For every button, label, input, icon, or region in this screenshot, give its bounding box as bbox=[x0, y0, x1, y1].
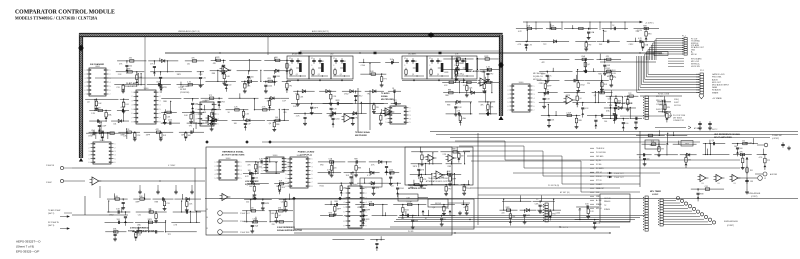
svg-text:4: 4 bbox=[410, 118, 411, 120]
svg-text:100: 100 bbox=[255, 177, 258, 179]
svg-text:C204: C204 bbox=[247, 78, 251, 80]
svg-text:ATTENUATOR MOD OUTPUT: ATTENUATOR MOD OUTPUT bbox=[426, 180, 451, 183]
svg-text:R91: R91 bbox=[750, 170, 753, 172]
svg-text:C7: C7 bbox=[429, 58, 431, 60]
svg-text:1: 1 bbox=[366, 188, 367, 190]
svg-text:SHIFT: SHIFT bbox=[674, 102, 680, 104]
svg-text:R88: R88 bbox=[448, 89, 451, 91]
svg-text:3: 3 bbox=[218, 114, 219, 116]
svg-text:CR12: CR12 bbox=[629, 44, 634, 46]
svg-text:SPARE: SPARE bbox=[596, 203, 602, 206]
svg-text:SIGNAL: SIGNAL bbox=[381, 95, 389, 98]
svg-text:5: 5 bbox=[132, 109, 133, 111]
svg-text:TP2: TP2 bbox=[393, 100, 396, 102]
svg-text:TP2: TP2 bbox=[189, 125, 192, 127]
svg-text:3: 3 bbox=[89, 151, 90, 153]
svg-text:+: + bbox=[345, 116, 346, 118]
svg-text:+: + bbox=[733, 176, 734, 178]
svg-text:5: 5 bbox=[115, 158, 116, 160]
svg-text:2 MHZ IN: 2 MHZ IN bbox=[240, 221, 248, 223]
svg-text:R101: R101 bbox=[320, 186, 324, 188]
svg-text:R88: R88 bbox=[276, 124, 279, 126]
svg-text:VR3: VR3 bbox=[375, 187, 379, 189]
svg-text:C88: C88 bbox=[750, 181, 753, 183]
svg-text:2: 2 bbox=[160, 96, 161, 98]
svg-text:3RD AMPL: 3RD AMPL bbox=[408, 53, 416, 56]
svg-text:5: 5 bbox=[312, 174, 313, 176]
svg-text:7: 7 bbox=[366, 216, 367, 218]
svg-text:Q1: Q1 bbox=[318, 74, 320, 76]
svg-text:VR3: VR3 bbox=[221, 102, 225, 104]
svg-text:100: 100 bbox=[740, 148, 743, 150]
svg-text:RX MUTE: RX MUTE bbox=[596, 168, 604, 170]
svg-text:Q1: Q1 bbox=[412, 74, 414, 76]
svg-text:100: 100 bbox=[512, 216, 515, 218]
svg-text:U000: U000 bbox=[144, 88, 149, 90]
svg-text:AT SET (B): AT SET (B) bbox=[560, 191, 570, 194]
svg-text:6: 6 bbox=[85, 90, 86, 92]
svg-text:DET AUD: DET AUD bbox=[596, 155, 604, 158]
svg-text:J4: J4 bbox=[206, 217, 208, 219]
svg-text:TP2: TP2 bbox=[168, 234, 171, 236]
svg-text:R101: R101 bbox=[203, 101, 207, 103]
svg-text:100: 100 bbox=[578, 209, 581, 211]
svg-text:TP2: TP2 bbox=[588, 44, 591, 46]
svg-text:+: + bbox=[429, 156, 430, 158]
svg-text:R88: R88 bbox=[139, 196, 142, 198]
svg-text:VR3: VR3 bbox=[357, 207, 361, 209]
svg-text:100: 100 bbox=[625, 123, 628, 125]
svg-text:A+ SW: A+ SW bbox=[596, 199, 602, 202]
svg-text:1: 1 bbox=[286, 159, 287, 161]
svg-text:100: 100 bbox=[228, 85, 231, 87]
svg-text:DATA OUT: DATA OUT bbox=[596, 187, 604, 190]
svg-text:R88: R88 bbox=[358, 167, 361, 169]
svg-text:220: 220 bbox=[246, 202, 249, 204]
svg-text:POWER SET: POWER SET bbox=[772, 135, 782, 137]
svg-text:5 MHZ: 5 MHZ bbox=[46, 182, 53, 184]
svg-text:VR3: VR3 bbox=[267, 78, 271, 80]
svg-text:CR12: CR12 bbox=[463, 187, 468, 189]
svg-text:6: 6 bbox=[508, 106, 509, 108]
svg-text:2: 2 bbox=[366, 193, 367, 195]
svg-text:2: 2 bbox=[110, 74, 111, 76]
svg-text:3: 3 bbox=[115, 151, 116, 153]
svg-text:4: 4 bbox=[215, 174, 216, 176]
svg-text:100: 100 bbox=[604, 31, 607, 33]
svg-text:6: 6 bbox=[160, 113, 161, 115]
svg-text:SQUELCH: SQUELCH bbox=[607, 73, 616, 75]
svg-text:(2X MODE): (2X MODE) bbox=[180, 92, 190, 94]
svg-text:6: 6 bbox=[286, 178, 287, 180]
svg-text:LOGIC: LOGIC bbox=[652, 194, 659, 196]
svg-text:1: 1 bbox=[89, 144, 90, 146]
svg-text:U000: U000 bbox=[353, 184, 358, 186]
svg-text:100: 100 bbox=[626, 99, 629, 101]
svg-text:7: 7 bbox=[534, 110, 535, 112]
svg-text:P2 MIC CONN: P2 MIC CONN bbox=[658, 94, 670, 96]
svg-text:VR3: VR3 bbox=[648, 33, 652, 35]
svg-text:U000: U000 bbox=[226, 158, 231, 160]
svg-text:U9: U9 bbox=[702, 183, 704, 185]
svg-text:3: 3 bbox=[110, 78, 111, 80]
svg-text:SPARE: SPARE bbox=[712, 91, 719, 94]
svg-text:SPLIT AMPLIFIER: SPLIT AMPLIFIER bbox=[714, 136, 732, 139]
svg-text:FLWS-48934-B: FLWS-48934-B bbox=[748, 193, 761, 195]
svg-text:+: + bbox=[717, 176, 718, 178]
svg-text:TX AUD HI: TX AUD HI bbox=[596, 147, 605, 150]
svg-text:FLWS-48934-B: FLWS-48934-B bbox=[724, 221, 738, 223]
svg-text:1: 1 bbox=[132, 92, 133, 94]
svg-text:SIGNAL BUFFER/SPLITTER: SIGNAL BUFFER/SPLITTER bbox=[277, 229, 303, 232]
svg-text:TP2: TP2 bbox=[490, 74, 493, 76]
svg-text:SPK LO: SPK LO bbox=[596, 172, 603, 174]
svg-text:C31: C31 bbox=[113, 123, 116, 125]
svg-text:220: 220 bbox=[272, 224, 275, 226]
svg-text:R88: R88 bbox=[127, 69, 130, 71]
svg-text:Q1: Q1 bbox=[462, 74, 464, 76]
svg-text:TP2: TP2 bbox=[545, 89, 548, 91]
svg-text:R88: R88 bbox=[598, 74, 601, 76]
svg-text:220: 220 bbox=[501, 213, 504, 215]
svg-text:U9: U9 bbox=[734, 183, 736, 185]
svg-text:1: 1 bbox=[288, 158, 289, 160]
svg-text:R2: R2 bbox=[440, 61, 442, 63]
svg-text:+: + bbox=[701, 176, 702, 178]
svg-text:5: 5 bbox=[286, 174, 287, 176]
svg-text:TX AUDIO SIGNAL: TX AUDIO SIGNAL bbox=[355, 131, 370, 134]
svg-text:5: 5 bbox=[160, 109, 161, 111]
svg-text:UNIFIED AUDIO (SHT 2,3): UNIFIED AUDIO (SHT 2,3) bbox=[178, 30, 200, 33]
svg-text:SHT 2: SHT 2 bbox=[712, 129, 717, 131]
svg-text:NETWORK OPTIONS: NETWORK OPTIONS bbox=[408, 188, 427, 190]
svg-text:R88: R88 bbox=[415, 220, 418, 222]
svg-text:1: 1 bbox=[160, 92, 161, 94]
svg-text:2 MHZ REFERENCE: 2 MHZ REFERENCE bbox=[277, 227, 296, 229]
svg-text:+: + bbox=[209, 118, 210, 120]
svg-text:4: 4 bbox=[160, 105, 161, 107]
svg-text:220: 220 bbox=[122, 102, 125, 104]
svg-text:J3: J3 bbox=[206, 209, 208, 211]
svg-text:3: 3 bbox=[215, 170, 216, 172]
svg-text:2: 2 bbox=[534, 90, 535, 92]
svg-text:5: 5 bbox=[366, 207, 367, 209]
svg-text:SQUELCH: SQUELCH bbox=[533, 76, 543, 78]
svg-text:1: 1 bbox=[85, 70, 86, 72]
svg-text:HOOK SW: HOOK SW bbox=[691, 66, 700, 68]
svg-text:8: 8 bbox=[366, 221, 367, 223]
svg-text:R88: R88 bbox=[578, 120, 581, 122]
svg-text:P3: P3 bbox=[536, 199, 538, 201]
svg-text:FILTER: FILTER bbox=[180, 89, 187, 91]
svg-text:2: 2 bbox=[89, 147, 90, 149]
svg-text:R88: R88 bbox=[212, 73, 215, 75]
svg-text:RTN GUARD: RTN GUARD bbox=[691, 57, 702, 60]
svg-text:R101: R101 bbox=[405, 209, 409, 211]
svg-text:CR12: CR12 bbox=[109, 214, 114, 216]
svg-text:8: 8 bbox=[286, 186, 287, 188]
svg-text:S/N CHANGER: S/N CHANGER bbox=[90, 63, 105, 66]
svg-text:SPARE: SPARE bbox=[604, 208, 611, 211]
svg-text:RX AUDIO: RX AUDIO bbox=[712, 89, 722, 92]
svg-text:GAIN: GAIN bbox=[650, 144, 655, 147]
svg-text:U000: U000 bbox=[297, 155, 302, 157]
svg-text:3: 3 bbox=[386, 115, 387, 117]
svg-text:7: 7 bbox=[508, 110, 509, 112]
svg-text:R2: R2 bbox=[344, 61, 346, 63]
svg-text:8: 8 bbox=[312, 186, 313, 188]
svg-text:VOL HI: VOL HI bbox=[596, 176, 602, 178]
svg-text:TX AUD 2 MHZ: TX AUD 2 MHZ bbox=[48, 209, 61, 212]
svg-text:R88: R88 bbox=[447, 104, 450, 106]
svg-text:TP2: TP2 bbox=[448, 188, 451, 190]
svg-text:PL DECODE: PL DECODE bbox=[596, 152, 607, 154]
svg-text:C204: C204 bbox=[556, 213, 560, 215]
svg-text:.1: .1 bbox=[289, 65, 290, 67]
svg-text:VR3: VR3 bbox=[320, 164, 324, 166]
svg-text:C204: C204 bbox=[335, 118, 339, 120]
svg-text:R2: R2 bbox=[415, 61, 417, 63]
svg-text:5: 5 bbox=[262, 170, 263, 172]
svg-text:R88: R88 bbox=[334, 201, 337, 203]
svg-text:5: 5 bbox=[218, 123, 219, 125]
svg-text:9: 9 bbox=[366, 225, 367, 227]
svg-text:+: + bbox=[481, 80, 482, 82]
svg-text:100: 100 bbox=[604, 121, 607, 123]
svg-text:C204: C204 bbox=[168, 120, 172, 122]
svg-text:COMPARATOR CONTROL MODULE: COMPARATOR CONTROL MODULE bbox=[15, 10, 115, 16]
svg-text:VR3: VR3 bbox=[281, 187, 285, 189]
svg-text:R88: R88 bbox=[643, 25, 646, 27]
svg-text:2: 2 bbox=[115, 147, 116, 149]
svg-text:1: 1 bbox=[312, 159, 313, 161]
svg-text:5: 5 bbox=[89, 158, 90, 160]
svg-text:MPL TIMER: MPL TIMER bbox=[650, 191, 662, 193]
svg-text:J5: J5 bbox=[206, 228, 208, 230]
svg-text:MODELS TTN4093G / CLN7361B / C: MODELS TTN4093G / CLN7361B / CLN7728A bbox=[15, 16, 97, 21]
svg-text:TP2: TP2 bbox=[543, 44, 546, 46]
svg-text:(CONT): (CONT) bbox=[727, 225, 734, 227]
svg-text:4: 4 bbox=[534, 98, 535, 100]
svg-text:Q4: Q4 bbox=[712, 140, 714, 142]
svg-text:Q1: Q1 bbox=[296, 74, 298, 76]
svg-text:C31: C31 bbox=[166, 203, 169, 205]
svg-text:9: 9 bbox=[344, 225, 345, 227]
svg-text:+5V SPARE: +5V SPARE bbox=[712, 97, 723, 100]
svg-text:2 MHZ OUT: 2 MHZ OUT bbox=[614, 177, 625, 179]
svg-text:FEEDBACK CONTROL: FEEDBACK CONTROL bbox=[408, 184, 428, 187]
svg-text:7: 7 bbox=[110, 94, 111, 96]
svg-text:TP2: TP2 bbox=[97, 107, 100, 109]
svg-text:TO SHT 4: TO SHT 4 bbox=[560, 227, 568, 229]
svg-text:LOOP (PLL): LOOP (PLL) bbox=[300, 155, 312, 157]
svg-text:Q4: Q4 bbox=[87, 102, 89, 104]
svg-text:5: 5 bbox=[85, 86, 86, 88]
svg-text:Q4: Q4 bbox=[432, 207, 434, 209]
svg-text:2: 2 bbox=[215, 166, 216, 168]
svg-text:KEYED A+: KEYED A+ bbox=[691, 63, 700, 66]
svg-text:TP2: TP2 bbox=[383, 79, 386, 81]
svg-text:KEYING: KEYING bbox=[674, 105, 681, 107]
svg-text:1: 1 bbox=[215, 162, 216, 164]
svg-text:5: 5 bbox=[508, 102, 509, 104]
svg-text:1: 1 bbox=[534, 86, 535, 88]
svg-text:C31: C31 bbox=[203, 78, 206, 80]
svg-text:LOW BATTERY: LOW BATTERY bbox=[245, 180, 259, 183]
svg-text:Q4: Q4 bbox=[587, 64, 589, 66]
svg-text:CR12: CR12 bbox=[91, 135, 96, 137]
svg-text:8: 8 bbox=[160, 122, 161, 124]
svg-text:R88: R88 bbox=[459, 63, 462, 65]
svg-text:MIC LO: MIC LO bbox=[596, 208, 603, 210]
svg-text:U000: U000 bbox=[273, 155, 278, 157]
svg-text:TP2: TP2 bbox=[367, 94, 370, 96]
svg-text:2: 2 bbox=[508, 90, 509, 92]
svg-text:CR12: CR12 bbox=[539, 83, 544, 85]
svg-text:4: 4 bbox=[85, 82, 86, 84]
svg-text:+: + bbox=[223, 195, 224, 197]
svg-text:R88: R88 bbox=[155, 201, 158, 203]
svg-text:MULTIPLEXER: MULTIPLEXER bbox=[355, 135, 368, 137]
svg-text:R101: R101 bbox=[606, 68, 610, 70]
svg-text:C7: C7 bbox=[404, 58, 406, 60]
svg-text:Q1: Q1 bbox=[340, 74, 342, 76]
svg-text:2 MHZ REF: 2 MHZ REF bbox=[240, 232, 250, 234]
svg-text:4: 4 bbox=[89, 155, 90, 157]
svg-text:4: 4 bbox=[288, 167, 289, 169]
svg-text:100: 100 bbox=[275, 57, 278, 59]
svg-text:TP2: TP2 bbox=[767, 160, 770, 162]
svg-text:2: 2 bbox=[196, 109, 197, 111]
svg-text:OUT OF: OUT OF bbox=[604, 198, 612, 200]
svg-text:3: 3 bbox=[410, 115, 411, 117]
svg-text:2 MHZ OUT: 2 MHZ OUT bbox=[614, 173, 625, 175]
svg-text:5: 5 bbox=[386, 122, 387, 124]
svg-text:CH ACT: CH ACT bbox=[596, 183, 602, 186]
svg-text:C7: C7 bbox=[289, 58, 291, 60]
svg-text:EPS-39325—O/F: EPS-39325—O/F bbox=[16, 250, 40, 254]
svg-text:R88: R88 bbox=[448, 166, 451, 168]
svg-text:CONNECTOR: CONNECTOR bbox=[673, 120, 685, 122]
svg-text:4: 4 bbox=[196, 119, 197, 121]
svg-text:4: 4 bbox=[386, 118, 387, 120]
svg-text:C7: C7 bbox=[333, 58, 335, 60]
svg-text:+: + bbox=[449, 156, 450, 158]
svg-text:6: 6 bbox=[534, 106, 535, 108]
svg-text:MULTIPLEXER: MULTIPLEXER bbox=[381, 99, 394, 101]
svg-text:5: 5 bbox=[534, 102, 535, 104]
svg-text:7: 7 bbox=[85, 94, 86, 96]
svg-text:7: 7 bbox=[344, 216, 345, 218]
svg-text:2: 2 bbox=[312, 163, 313, 165]
svg-text:FREQ: FREQ bbox=[674, 99, 680, 101]
svg-text:TX AUDIO: TX AUDIO bbox=[381, 92, 390, 95]
svg-text:RANGE: RANGE bbox=[604, 200, 611, 203]
svg-text:.1: .1 bbox=[404, 65, 405, 67]
svg-text:220: 220 bbox=[283, 112, 286, 114]
svg-text:2: 2 bbox=[386, 111, 387, 113]
svg-text:CR12: CR12 bbox=[580, 85, 585, 87]
svg-text:VR3: VR3 bbox=[163, 87, 167, 89]
svg-text:PL MUTE (B): PL MUTE (B) bbox=[548, 185, 560, 187]
svg-text:TP2: TP2 bbox=[355, 118, 358, 120]
svg-text:C31: C31 bbox=[187, 63, 190, 65]
svg-text:4: 4 bbox=[241, 174, 242, 176]
svg-text:4: 4 bbox=[115, 155, 116, 157]
svg-text:5: 5 bbox=[344, 207, 345, 209]
svg-text:C204: C204 bbox=[243, 84, 247, 86]
svg-text:C31: C31 bbox=[116, 87, 119, 89]
svg-text:R88: R88 bbox=[276, 76, 279, 78]
svg-text:R88: R88 bbox=[700, 193, 703, 195]
svg-text:4: 4 bbox=[132, 105, 133, 107]
svg-text:+: + bbox=[437, 173, 438, 175]
svg-text:5: 5 bbox=[110, 86, 111, 88]
svg-text:6: 6 bbox=[366, 211, 367, 213]
svg-text:AEPS-39325T—O: AEPS-39325T—O bbox=[16, 240, 41, 244]
svg-text:1: 1 bbox=[110, 70, 111, 72]
svg-text:220: 220 bbox=[742, 140, 745, 142]
svg-text:Q4: Q4 bbox=[391, 186, 393, 188]
svg-text:Q1: Q1 bbox=[437, 74, 439, 76]
svg-text:TP2: TP2 bbox=[628, 93, 631, 95]
svg-text:2 MHZ OUT: 2 MHZ OUT bbox=[240, 213, 251, 215]
svg-text:2: 2 bbox=[241, 166, 242, 168]
svg-text:7: 7 bbox=[132, 117, 133, 119]
svg-text:R101: R101 bbox=[455, 56, 459, 58]
svg-text:5: 5 bbox=[410, 122, 411, 124]
svg-text:C7: C7 bbox=[311, 58, 313, 60]
svg-text:SIGNAL BUFFER/SPLITTER: SIGNAL BUFFER/SPLITTER bbox=[128, 230, 155, 233]
svg-text:+: + bbox=[567, 98, 568, 100]
svg-text:PHASE LOCKED: PHASE LOCKED bbox=[298, 151, 315, 154]
svg-text:1: 1 bbox=[386, 108, 387, 110]
svg-text:SQ IN: SQ IN bbox=[596, 160, 601, 162]
svg-text:.1: .1 bbox=[311, 65, 312, 67]
svg-text:3: 3 bbox=[288, 164, 289, 166]
svg-text:R88: R88 bbox=[354, 159, 357, 161]
svg-text:C31: C31 bbox=[281, 202, 284, 204]
svg-text:U000: U000 bbox=[519, 82, 524, 84]
svg-text:PTT IN: PTT IN bbox=[596, 180, 602, 182]
svg-text:R88: R88 bbox=[276, 186, 279, 188]
svg-text:5: 5 bbox=[288, 170, 289, 172]
svg-text:(CONT): (CONT) bbox=[751, 196, 758, 198]
svg-text:CONVERTER: CONVERTER bbox=[125, 86, 138, 88]
svg-text:U9: U9 bbox=[718, 183, 720, 185]
svg-text:CR12: CR12 bbox=[344, 94, 349, 96]
svg-text:VR3: VR3 bbox=[527, 215, 531, 217]
svg-text:100: 100 bbox=[251, 76, 254, 78]
svg-text:1: 1 bbox=[241, 162, 242, 164]
svg-text:MOD AUDIO INPUT: MOD AUDIO INPUT bbox=[712, 84, 730, 87]
svg-text:4: 4 bbox=[312, 170, 313, 172]
svg-text:C31: C31 bbox=[138, 214, 141, 216]
svg-text:1: 1 bbox=[508, 86, 509, 88]
svg-text:2: 2 bbox=[132, 96, 133, 98]
svg-text:R88: R88 bbox=[445, 95, 448, 97]
svg-text:(Sheet 7 of 9): (Sheet 7 of 9) bbox=[16, 245, 34, 249]
svg-text:Q4: Q4 bbox=[579, 98, 581, 100]
svg-text:2: 2 bbox=[85, 74, 86, 76]
svg-text:220: 220 bbox=[129, 65, 132, 67]
svg-text:4: 4 bbox=[110, 82, 111, 84]
svg-text:PL IND: PL IND bbox=[408, 231, 414, 233]
svg-text:MOD: MOD bbox=[369, 183, 374, 185]
svg-text:4.7 MHZ: 4.7 MHZ bbox=[168, 165, 176, 167]
svg-text:1: 1 bbox=[410, 108, 411, 110]
svg-text:.1: .1 bbox=[454, 65, 455, 67]
